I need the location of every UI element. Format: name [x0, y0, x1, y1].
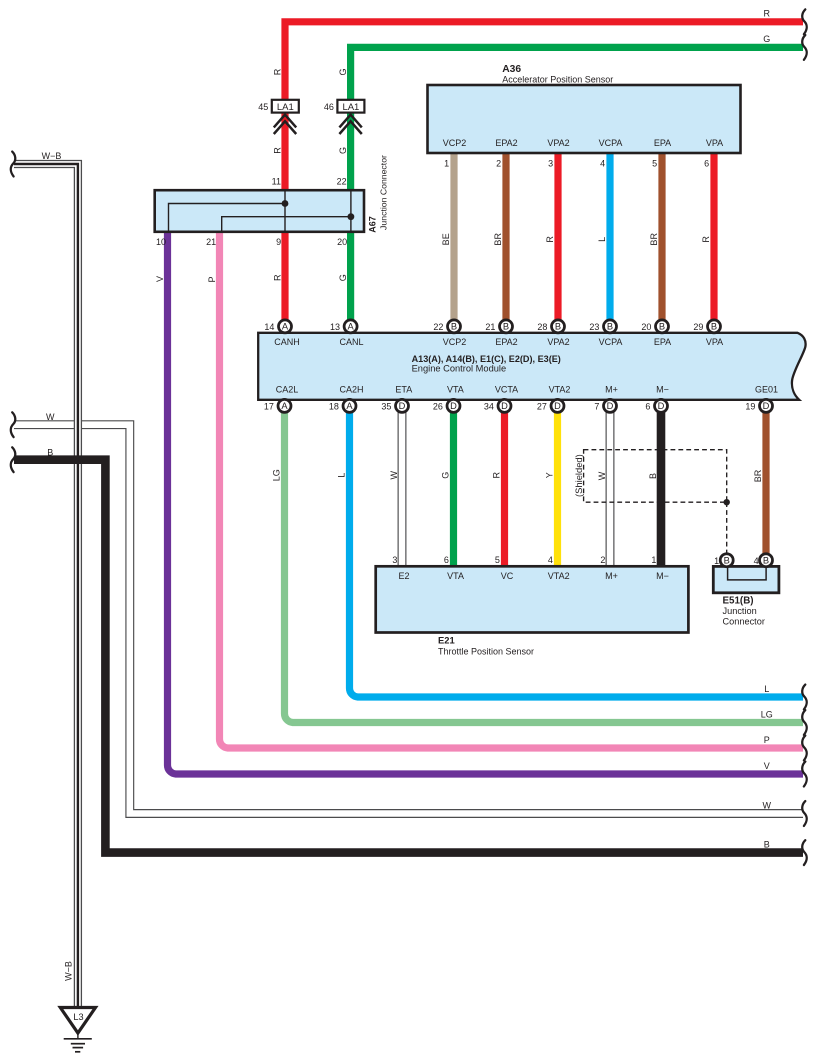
svg-text:Connector: Connector — [723, 616, 765, 626]
svg-text:R: R — [272, 274, 282, 281]
svg-text:BR: BR — [753, 469, 763, 482]
svg-text:B: B — [763, 556, 769, 566]
wire R (VPA2) — [554, 153, 561, 320]
svg-text:13: 13 — [330, 322, 340, 332]
svg-text:A: A — [281, 401, 288, 411]
svg-text:VPA: VPA — [706, 337, 723, 347]
svg-text:LA1: LA1 — [277, 102, 294, 113]
svg-text:B: B — [451, 322, 457, 332]
svg-text:LG: LG — [761, 709, 773, 719]
svg-text:M−: M− — [656, 384, 669, 394]
left harness break B — [11, 447, 53, 472]
svg-text:28: 28 — [537, 322, 547, 332]
svg-text:VTA2: VTA2 — [549, 384, 571, 394]
svg-text:R: R — [272, 147, 282, 154]
svg-text:20: 20 — [641, 322, 651, 332]
connector A36 Accelerator Position Sensor — [428, 64, 741, 153]
svg-text:R: R — [545, 236, 555, 243]
svg-text:M−: M− — [656, 571, 669, 581]
svg-text:3: 3 — [548, 159, 553, 169]
svg-text:4: 4 — [600, 159, 605, 169]
svg-text:14: 14 — [264, 322, 274, 332]
A36 pin numbers 1-6 — [444, 159, 709, 169]
svg-text:E2: E2 — [398, 571, 409, 581]
svg-text:L: L — [597, 237, 607, 242]
svg-text:B: B — [764, 839, 770, 849]
svg-text:Engine Control Module: Engine Control Module — [412, 364, 507, 374]
svg-text:VC: VC — [501, 571, 514, 581]
svg-text:VTA: VTA — [447, 384, 464, 394]
svg-text:2: 2 — [496, 159, 501, 169]
wire BR (GE01 to E51) — [762, 412, 769, 554]
svg-text:11: 11 — [272, 177, 281, 187]
svg-text:D: D — [501, 401, 508, 411]
connector A67 Junction Connector — [155, 190, 364, 232]
connector LA1 #46 — [324, 100, 365, 134]
svg-text:L: L — [337, 473, 347, 478]
A36 wire colour labels BE BR R L BR R — [441, 233, 711, 246]
svg-text:4: 4 — [548, 555, 553, 565]
svg-text:34: 34 — [484, 402, 494, 412]
left harness break W-B — [11, 151, 62, 176]
svg-text:G: G — [338, 147, 348, 154]
svg-text:W−B: W−B — [42, 151, 62, 161]
svg-text:VCTA: VCTA — [495, 384, 518, 394]
svg-text:VCP2: VCP2 — [443, 337, 467, 347]
E21 pin numbers — [392, 555, 656, 565]
svg-text:E21: E21 — [438, 634, 455, 645]
svg-text:E51(B): E51(B) — [723, 596, 754, 607]
svg-text:D: D — [450, 401, 457, 411]
svg-text:BE: BE — [441, 233, 451, 245]
svg-text:W: W — [763, 800, 772, 810]
svg-text:23: 23 — [589, 322, 599, 332]
svg-text:B: B — [503, 322, 509, 332]
wire R (VCTA to VC) — [501, 412, 508, 566]
svg-text:Junction: Junction — [723, 606, 757, 616]
svg-text:LA1: LA1 — [342, 102, 359, 113]
svg-text:9: 9 — [276, 237, 281, 247]
svg-text:G: G — [763, 34, 770, 44]
left harness break W — [11, 412, 55, 437]
svg-text:CANL: CANL — [339, 337, 363, 347]
wire R (VPA) — [710, 153, 717, 320]
svg-text:A13(A), A14(B), E1(C), E2(D),: A13(A), A14(B), E1(C), E2(D), E3(E) — [412, 354, 561, 364]
svg-text:W−B: W−B — [64, 961, 74, 981]
svg-text:GE01: GE01 — [755, 384, 778, 394]
svg-text:19: 19 — [745, 402, 755, 412]
wire W shielded (M+) — [606, 412, 615, 566]
svg-text:CA2L: CA2L — [276, 384, 299, 394]
svg-text:VTA: VTA — [447, 571, 464, 581]
svg-text:6: 6 — [704, 159, 709, 169]
svg-text:22: 22 — [337, 177, 347, 187]
svg-text:B: B — [607, 322, 613, 332]
svg-text:V: V — [764, 761, 770, 771]
svg-text:7: 7 — [594, 402, 599, 412]
wire R (CANH) top run — [285, 22, 803, 321]
E51 pin circles — [714, 554, 772, 567]
wire G (CANL) top run — [351, 47, 803, 320]
svg-text:EPA2: EPA2 — [495, 337, 517, 347]
wire B (M-) — [657, 412, 666, 566]
svg-text:26: 26 — [433, 402, 443, 412]
svg-text:VPA: VPA — [706, 138, 723, 148]
wire V violet from A67 pin 10 to right edge — [167, 232, 803, 774]
svg-text:2: 2 — [600, 555, 605, 565]
shielded cable boundary — [573, 450, 730, 554]
wire BE (VCP2) — [450, 153, 457, 320]
svg-text:R: R — [492, 471, 502, 478]
svg-text:EPA: EPA — [654, 138, 671, 148]
svg-text:B: B — [47, 448, 53, 458]
svg-text:M+: M+ — [605, 571, 618, 581]
svg-text:A: A — [346, 401, 353, 411]
svg-text:P: P — [207, 276, 217, 282]
ECU U1 Engine Control Module — [258, 333, 805, 400]
svg-text:D: D — [399, 401, 406, 411]
wire W-B to ground — [14, 164, 78, 1008]
wire BR (EPA) — [658, 153, 665, 320]
wire labels V P — [155, 276, 217, 283]
svg-text:A: A — [282, 322, 289, 332]
wire B left to right edge — [14, 460, 803, 853]
right edge harness breaks and labels — [761, 9, 807, 865]
svg-text:6: 6 — [645, 402, 650, 412]
svg-text:CANH: CANH — [274, 337, 300, 347]
svg-text:Junction Connector: Junction Connector — [379, 155, 389, 230]
svg-text:R: R — [764, 9, 771, 19]
svg-text:LG: LG — [272, 469, 282, 481]
svg-text:35: 35 — [381, 402, 391, 412]
svg-text:VPA2: VPA2 — [547, 337, 569, 347]
svg-text:W: W — [389, 470, 399, 479]
wire L (VCPA) — [606, 153, 613, 320]
svg-text:D: D — [763, 401, 770, 411]
svg-text:17: 17 — [264, 402, 274, 412]
svg-text:Y: Y — [545, 472, 555, 478]
svg-text:B: B — [711, 322, 717, 332]
svg-text:W: W — [46, 412, 55, 422]
svg-text:D: D — [554, 401, 561, 411]
svg-text:Throttle Position Sensor: Throttle Position Sensor — [438, 647, 534, 657]
svg-text:6: 6 — [444, 555, 449, 565]
svg-text:45: 45 — [258, 102, 268, 112]
wire W (ETA to E2) — [398, 412, 407, 566]
svg-text:BR: BR — [493, 233, 503, 246]
svg-text:Accelerator Position Sensor: Accelerator Position Sensor — [502, 75, 613, 85]
svg-text:G: G — [441, 472, 451, 479]
svg-text:EPA: EPA — [654, 337, 671, 347]
svg-text:B: B — [555, 322, 561, 332]
svg-text:B: B — [648, 473, 658, 479]
sensor E21 Throttle Position Sensor — [376, 566, 689, 656]
svg-text:BR: BR — [649, 233, 659, 246]
svg-text:V: V — [155, 276, 165, 282]
wire G (VTA) — [450, 412, 457, 566]
svg-text:VCP2: VCP2 — [443, 138, 467, 148]
svg-text:B: B — [724, 556, 730, 566]
svg-text:VPA2: VPA2 — [547, 138, 569, 148]
svg-text:P: P — [764, 735, 770, 745]
svg-text:R: R — [701, 236, 711, 243]
svg-text:1: 1 — [651, 555, 656, 565]
svg-text:G: G — [338, 274, 348, 281]
svg-text:18: 18 — [329, 402, 339, 412]
svg-text:1: 1 — [714, 556, 719, 566]
wire Y (VTA2) — [554, 412, 561, 566]
wire labels R/G columns — [272, 68, 348, 281]
svg-text:G: G — [338, 68, 348, 75]
svg-text:L: L — [764, 684, 769, 694]
svg-text:W: W — [597, 471, 607, 480]
wire LG (CA2L) to right edge — [284, 412, 803, 723]
svg-text:CA2H: CA2H — [339, 384, 363, 394]
svg-text:VCPA: VCPA — [599, 337, 623, 347]
svg-text:A36: A36 — [502, 64, 521, 75]
svg-text:20: 20 — [337, 237, 347, 247]
svg-text:5: 5 — [495, 555, 500, 565]
svg-text:B: B — [659, 322, 665, 332]
svg-text:3: 3 — [392, 555, 397, 565]
connector E51(B) Junction Connector — [713, 566, 779, 626]
svg-text:46: 46 — [324, 102, 334, 112]
svg-text:1: 1 — [444, 159, 449, 169]
svg-text:D: D — [658, 401, 665, 411]
svg-text:VTA2: VTA2 — [548, 571, 570, 581]
svg-text:10: 10 — [156, 237, 166, 247]
svg-text:ETA: ETA — [395, 384, 412, 394]
ECM top pin circles — [264, 320, 720, 333]
svg-text:27: 27 — [537, 402, 547, 412]
svg-text:VCPA: VCPA — [599, 138, 623, 148]
wire L (CA2H) to right edge — [349, 412, 803, 697]
svg-text:D: D — [607, 401, 614, 411]
A67 pin numbers — [156, 177, 347, 248]
ECM bottom wire colour labels — [272, 469, 764, 482]
svg-text:R: R — [272, 68, 282, 75]
svg-text:(Shielded): (Shielded) — [573, 454, 584, 497]
svg-text:4: 4 — [754, 556, 759, 566]
svg-text:29: 29 — [693, 322, 703, 332]
svg-text:M+: M+ — [605, 384, 618, 394]
connector LA1 #45 — [258, 100, 299, 134]
svg-text:EPA2: EPA2 — [495, 138, 517, 148]
svg-text:L3: L3 — [73, 1012, 83, 1022]
A67 label — [368, 155, 389, 233]
svg-text:5: 5 — [652, 159, 657, 169]
svg-text:21: 21 — [485, 322, 495, 332]
wire BR (EPA2) — [502, 153, 509, 320]
svg-text:21: 21 — [206, 237, 216, 247]
ground L3 — [60, 1008, 95, 1052]
ECM bottom pin circles — [264, 399, 773, 412]
svg-text:A67: A67 — [368, 216, 378, 233]
wire W left to right edge — [14, 425, 803, 814]
svg-text:22: 22 — [433, 322, 443, 332]
svg-text:A: A — [347, 322, 354, 332]
wire P pink from A67 pin 21 to right edge — [219, 232, 803, 748]
